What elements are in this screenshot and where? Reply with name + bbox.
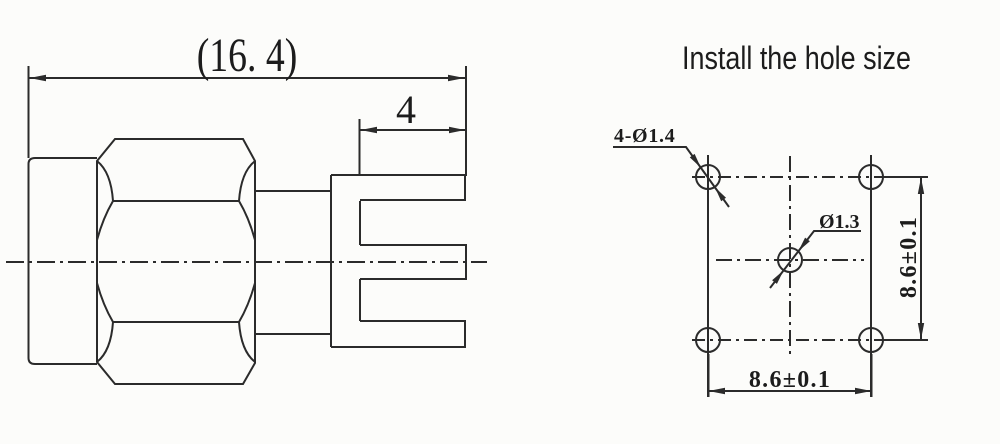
PCB pattern top dashed line: [692, 176, 889, 178]
leader arrow upper at center hole: [798, 238, 810, 252]
svg-text:8.6±0.1: 8.6±0.1: [896, 216, 922, 298]
dimension (16.4) extension line right: [465, 66, 467, 176]
PCB pattern square left edge: [707, 155, 709, 397]
dimension (16.4) arrow right: [448, 75, 465, 81]
hole top-left: [696, 165, 720, 189]
PCB pattern vertical centerline: [789, 156, 791, 358]
right dimension arrow bottom: [918, 323, 924, 340]
svg-text:4: 4: [396, 87, 416, 132]
centerline axis of connector: [6, 261, 487, 263]
bottom dimension line: [708, 390, 872, 392]
dimension 4 arrow right: [449, 127, 465, 133]
flange plate: [331, 175, 360, 347]
right dimension arrow top: [918, 178, 924, 195]
right dimension line: [920, 177, 922, 340]
hex facet line upper: [113, 200, 239, 202]
top mounting leg: [331, 175, 465, 200]
bottom dimension arrow left: [709, 388, 726, 394]
hex facet arcs left: [97, 161, 113, 362]
hole top-right: [859, 165, 883, 189]
PCB pattern square right edge: [870, 155, 872, 397]
leader line 4-O1.4: [613, 147, 729, 207]
leader arrow upper at TL hole: [690, 154, 701, 168]
hole bottom-right: [859, 328, 883, 352]
bottom mounting leg: [331, 321, 465, 347]
connector rear body: [29, 158, 98, 364]
hex facet arcs right: [239, 161, 255, 362]
PCB pattern bottom dashed line: [692, 339, 889, 341]
dimension (16.4) arrow left: [30, 75, 47, 81]
svg-text:Ø1.3: Ø1.3: [819, 211, 860, 233]
dimension (16.4) line: [29, 77, 465, 79]
svg-text:(16. 4): (16. 4): [197, 30, 298, 82]
dimension 4 arrow left: [361, 127, 378, 133]
bottom dimension extension lines: [709, 354, 872, 397]
leader arrow lower at center hole: [772, 270, 784, 284]
hex facet line lower: [113, 321, 239, 323]
hole center: [778, 248, 802, 272]
right dimension extension lines: [884, 177, 928, 340]
barrel section: [255, 191, 331, 334]
bottom dimension arrow right: [855, 388, 872, 394]
svg-text:8.6±0.1: 8.6±0.1: [749, 367, 831, 393]
dimension 4 extension line left: [359, 119, 361, 174]
center pin: [360, 245, 466, 279]
leader line O1.3: [770, 231, 861, 288]
svg-text:4-Ø1.4: 4-Ø1.4: [614, 125, 675, 147]
svg-text:Install the hole size: Install the hole size: [682, 40, 911, 76]
leader arrow lower at TL hole: [715, 187, 726, 201]
hole bottom-left: [696, 328, 720, 352]
dimension (16.4) extension line left: [28, 66, 30, 158]
PCB pattern horizontal centerline of center hole: [716, 259, 864, 261]
hex nut body outline: [97, 139, 255, 384]
dimension 4 line: [360, 129, 466, 131]
